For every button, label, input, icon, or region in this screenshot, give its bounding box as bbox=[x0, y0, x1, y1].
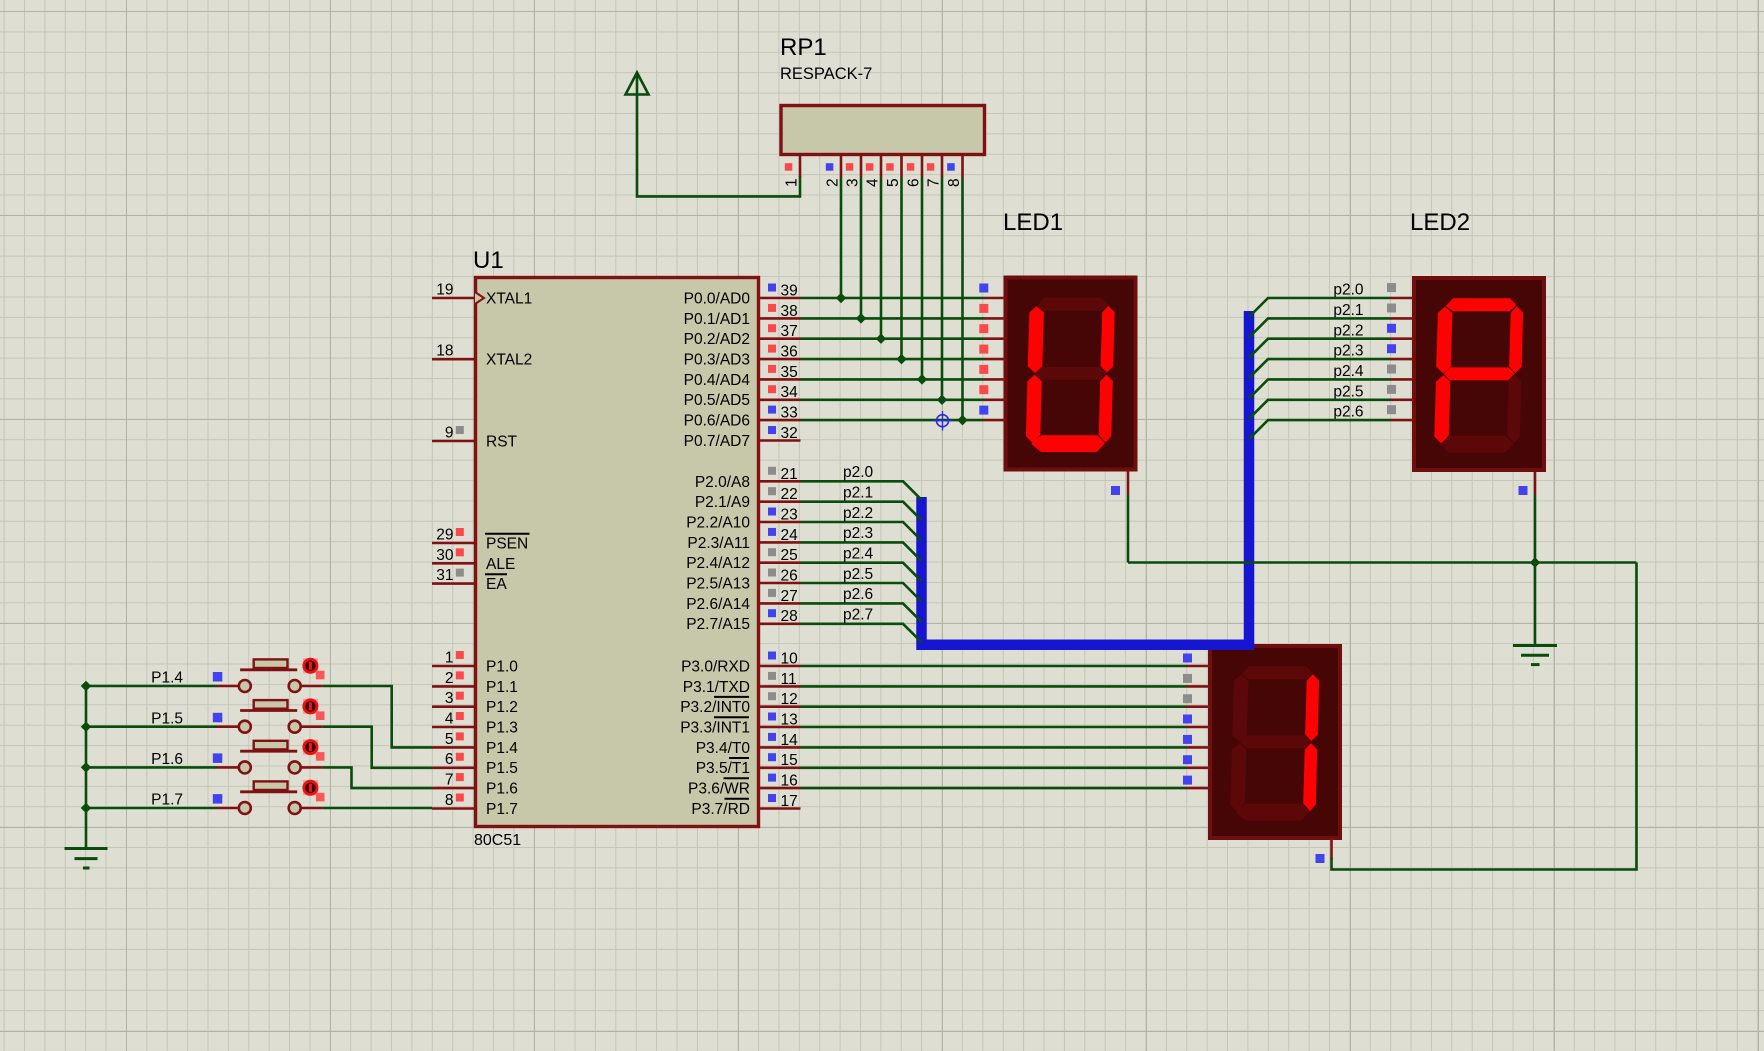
wire ground rail left bbox=[85, 686, 88, 849]
svg-text:13: 13 bbox=[781, 712, 798, 729]
U1 pin 26 P2.5/A13 bbox=[686, 568, 800, 593]
svg-text:P1.6: P1.6 bbox=[486, 781, 518, 798]
LED3 pin B bbox=[1183, 674, 1210, 687]
junction bbox=[856, 313, 866, 323]
svg-text:P1.1: P1.1 bbox=[486, 679, 518, 696]
wire P2.7 to bus bbox=[801, 624, 922, 642]
svg-text:p2.5: p2.5 bbox=[1333, 383, 1363, 400]
svg-text:XTAL1: XTAL1 bbox=[486, 291, 532, 308]
junction rail bbox=[81, 803, 91, 813]
svg-text:RESPACK-7: RESPACK-7 bbox=[780, 65, 872, 83]
U1 pin 33 P0.6/AD6 bbox=[684, 405, 801, 430]
junction bbox=[876, 333, 886, 343]
svg-text:P2.0/A8: P2.0/A8 bbox=[695, 474, 750, 491]
svg-text:P0.6/AD6: P0.6/AD6 bbox=[684, 413, 750, 430]
U1 pin 28 P2.7/A15 bbox=[686, 608, 800, 633]
svg-text:PSEN: PSEN bbox=[486, 536, 528, 553]
LED1 pin A bbox=[979, 284, 1006, 299]
LED2 segment D unlit bbox=[1440, 436, 1514, 453]
svg-text:32: 32 bbox=[781, 425, 798, 442]
U1 pin 35 P0.4/AD4 bbox=[684, 364, 801, 389]
svg-text:5: 5 bbox=[445, 731, 454, 748]
LED3 segment E unlit bbox=[1230, 743, 1246, 812]
wire RP1 pin 3 to P0.1 bbox=[860, 177, 863, 318]
svg-text:p2.3: p2.3 bbox=[843, 525, 873, 542]
svg-text:EA: EA bbox=[486, 576, 507, 593]
U1 pin 4 P1.3 bbox=[432, 711, 518, 737]
svg-text:17: 17 bbox=[781, 793, 798, 810]
svg-text:p2.2: p2.2 bbox=[843, 505, 873, 522]
svg-text:RST: RST bbox=[486, 434, 518, 451]
U1 pin 7 P1.6 bbox=[432, 772, 518, 798]
svg-text:P1.4: P1.4 bbox=[151, 670, 183, 687]
cursor crosshair bbox=[933, 411, 952, 431]
svg-text:p2.2: p2.2 bbox=[1333, 322, 1363, 339]
ground left bbox=[65, 849, 108, 869]
svg-text:P1.3: P1.3 bbox=[486, 720, 518, 737]
wire P0 rows to LED1 bbox=[801, 297, 985, 300]
U1 pin 16 P3.6/WR bbox=[688, 773, 801, 798]
svg-text:P3.3/INT1: P3.3/INT1 bbox=[680, 720, 750, 737]
junction bbox=[896, 354, 906, 364]
junction rail bbox=[81, 762, 91, 772]
wire LED2 common down bbox=[1534, 495, 1537, 563]
bus P2 bbox=[922, 311, 1250, 645]
wire RP1 pin 5 to P0.3 bbox=[900, 177, 903, 359]
LED3 segment G unlit bbox=[1240, 735, 1311, 748]
LED2 segment G lit bbox=[1444, 367, 1515, 380]
svg-text:P2.7/A15: P2.7/A15 bbox=[686, 616, 750, 633]
LED3 segment D unlit bbox=[1236, 804, 1310, 821]
RP1 pin 7 bbox=[926, 156, 943, 187]
LED3 pin C bbox=[1183, 694, 1210, 707]
junction bbox=[937, 395, 947, 405]
U1 pin 2 P1.1 bbox=[432, 670, 518, 696]
wire rail to button bbox=[86, 807, 217, 810]
LED3 pin E bbox=[1183, 735, 1210, 748]
svg-text:P1.5: P1.5 bbox=[486, 760, 518, 777]
wire RP1 pin 8 to P0.6 bbox=[961, 177, 964, 420]
junction bbox=[836, 293, 846, 303]
svg-text:8: 8 bbox=[946, 178, 963, 187]
wire P1.5 button to pin 6 bbox=[323, 727, 432, 768]
LED3 pin D bbox=[1183, 715, 1210, 728]
svg-text:23: 23 bbox=[781, 507, 798, 524]
svg-text:P1.6: P1.6 bbox=[151, 751, 183, 768]
svg-text:34: 34 bbox=[781, 384, 799, 401]
U1 pin 14 P3.4/T0 bbox=[696, 732, 801, 757]
wire rail to button bbox=[86, 685, 217, 688]
wire rail to button bbox=[86, 766, 217, 769]
net label P1.7 bbox=[151, 792, 222, 809]
svg-text:P3.6/WR: P3.6/WR bbox=[688, 781, 750, 798]
U1 pin 15 P3.5/T1 bbox=[696, 752, 801, 777]
svg-text:37: 37 bbox=[781, 323, 798, 340]
svg-text:P2.4/A12: P2.4/A12 bbox=[686, 555, 750, 572]
wire power to RP1 pin 1 bbox=[637, 94, 800, 196]
U1 pin 10 P3.0/RXD bbox=[681, 651, 800, 676]
svg-text:U1: U1 bbox=[473, 247, 504, 274]
svg-text:P2.1/A9: P2.1/A9 bbox=[695, 494, 750, 511]
U1 pin 19 XTAL1 bbox=[432, 282, 532, 308]
svg-text:31: 31 bbox=[436, 567, 453, 584]
LED3 common pin bbox=[1316, 838, 1332, 863]
svg-text:15: 15 bbox=[781, 752, 798, 769]
U1 pin 12 P3.2/INT0 bbox=[680, 691, 800, 716]
svg-text:2: 2 bbox=[445, 670, 454, 687]
U1 pin 24 P2.3/A11 bbox=[687, 527, 800, 552]
svg-text:P0.4/AD4: P0.4/AD4 bbox=[684, 372, 751, 389]
U1 pin 1 P1.0 bbox=[432, 650, 518, 676]
LED2 segment F lit bbox=[1436, 307, 1452, 374]
resistor pack RP1 bbox=[781, 106, 985, 155]
svg-text:7: 7 bbox=[926, 178, 943, 187]
svg-text:ALE: ALE bbox=[486, 556, 515, 573]
RP1 pin 5 bbox=[885, 156, 902, 187]
svg-text:25: 25 bbox=[781, 547, 798, 564]
svg-text:11: 11 bbox=[781, 671, 797, 688]
wire P2.6 to bus bbox=[801, 603, 922, 622]
svg-text:8: 8 bbox=[445, 792, 454, 809]
wire commons horizontal bbox=[1128, 561, 1637, 564]
LED3 pin G bbox=[1183, 776, 1210, 789]
U1 pin 6 P1.5 bbox=[432, 751, 518, 777]
wire bus to LED2 pin F bbox=[1249, 400, 1391, 419]
svg-text:P2.3/A11: P2.3/A11 bbox=[687, 535, 750, 552]
wire bus to LED2 pin A bbox=[1249, 298, 1391, 317]
U1 pin 25 P2.4/A12 bbox=[686, 547, 800, 572]
RP1 pin 3 bbox=[845, 156, 862, 187]
svg-text:RP1: RP1 bbox=[780, 34, 827, 61]
LED2 pin G bbox=[1387, 405, 1414, 420]
svg-text:80C51: 80C51 bbox=[474, 832, 521, 849]
U1 pin 36 P0.3/AD3 bbox=[684, 344, 801, 369]
wire P2.4 to bus bbox=[801, 563, 922, 582]
svg-text:7: 7 bbox=[445, 772, 454, 789]
LED1 segment A unlit bbox=[1037, 298, 1108, 311]
svg-text:5: 5 bbox=[885, 178, 902, 187]
svg-text:22: 22 bbox=[781, 486, 798, 503]
U1 pin 9 RST bbox=[432, 425, 518, 451]
net label P1.4 bbox=[151, 670, 222, 687]
svg-text:3: 3 bbox=[445, 690, 454, 707]
display LED2 body bbox=[1414, 278, 1544, 470]
svg-text:p2.5: p2.5 bbox=[843, 566, 873, 583]
svg-text:10: 10 bbox=[781, 651, 799, 668]
LED3 pin F bbox=[1183, 755, 1210, 768]
U1 pin 21 P2.0/A8 bbox=[695, 466, 801, 491]
RP1 pin 2 bbox=[825, 156, 842, 187]
wire RP1 pin 6 to P0.4 bbox=[921, 177, 924, 379]
svg-text:p2.1: p2.1 bbox=[1333, 302, 1363, 319]
LED3 segment F unlit bbox=[1232, 675, 1248, 742]
svg-text:4: 4 bbox=[445, 711, 454, 728]
LED1 pin D bbox=[979, 345, 1006, 360]
LED2 segment A lit bbox=[1446, 298, 1517, 311]
U1 pin 30 ALE bbox=[432, 547, 515, 573]
wire P1.4 button to pin 5 bbox=[323, 686, 432, 747]
svg-text:p2.4: p2.4 bbox=[1333, 363, 1364, 380]
svg-text:9: 9 bbox=[445, 425, 454, 442]
ground right bbox=[1513, 646, 1557, 665]
LED1 segment D lit bbox=[1031, 435, 1105, 452]
U1 pin 32 P0.7/AD7 bbox=[684, 425, 801, 450]
U1 pin 17 P3.7/RD bbox=[691, 793, 800, 818]
svg-text:1: 1 bbox=[445, 650, 454, 667]
junction rail bbox=[81, 681, 91, 691]
U1 pin 34 P0.5/AD5 bbox=[684, 384, 801, 409]
U1 pin 3 P1.2 bbox=[432, 690, 518, 716]
LED1 pin B bbox=[979, 304, 1006, 319]
U1 pin 8 P1.7 bbox=[432, 792, 518, 818]
svg-text:39: 39 bbox=[781, 283, 798, 300]
svg-text:6: 6 bbox=[445, 751, 454, 768]
svg-text:30: 30 bbox=[436, 547, 454, 564]
svg-text:p2.6: p2.6 bbox=[1333, 404, 1363, 421]
svg-text:p2.0: p2.0 bbox=[843, 464, 874, 481]
LED1 segment F lit bbox=[1028, 306, 1044, 373]
svg-text:35: 35 bbox=[781, 364, 798, 381]
svg-text:12: 12 bbox=[781, 691, 798, 708]
junction bbox=[917, 374, 927, 384]
wire P2.1 to bus bbox=[801, 502, 922, 521]
svg-text:XTAL2: XTAL2 bbox=[486, 352, 532, 369]
wire P2.2 to bus bbox=[801, 522, 922, 541]
LED2 pin B bbox=[1387, 304, 1414, 319]
wire bus to LED2 pin D bbox=[1249, 359, 1391, 378]
svg-text:p2.4: p2.4 bbox=[843, 546, 874, 563]
wire RP1 pin 7 to P0.5 bbox=[941, 177, 944, 400]
wire bus to LED2 pin G bbox=[1249, 420, 1391, 439]
LED1 segment G unlit bbox=[1035, 367, 1106, 380]
svg-text:p2.0: p2.0 bbox=[1333, 282, 1364, 299]
LED1 segment B lit bbox=[1101, 306, 1115, 373]
U1 pin 5 P1.4 bbox=[432, 731, 518, 757]
svg-text:21: 21 bbox=[781, 466, 798, 483]
svg-text:P0.2/AD2: P0.2/AD2 bbox=[684, 331, 750, 348]
LED2 pin A bbox=[1387, 283, 1414, 298]
LED2 pin E bbox=[1387, 365, 1414, 380]
LED1 pin E bbox=[979, 365, 1006, 380]
svg-text:27: 27 bbox=[781, 588, 798, 605]
svg-text:36: 36 bbox=[781, 344, 798, 361]
ic U1 body bbox=[476, 278, 759, 827]
svg-text:1: 1 bbox=[784, 178, 801, 187]
svg-text:P3.0/RXD: P3.0/RXD bbox=[681, 659, 750, 676]
svg-text:P0.1/AD1: P0.1/AD1 bbox=[684, 311, 750, 328]
svg-text:26: 26 bbox=[781, 568, 798, 585]
svg-text:38: 38 bbox=[781, 303, 798, 320]
wire ground stem right bbox=[1534, 563, 1537, 646]
svg-text:p2.1: p2.1 bbox=[843, 485, 873, 502]
svg-text:18: 18 bbox=[436, 343, 453, 360]
svg-text:P3.2/INT0: P3.2/INT0 bbox=[680, 699, 750, 716]
svg-text:P3.7/RD: P3.7/RD bbox=[691, 801, 750, 818]
wire P1.7 button to pin 8 bbox=[323, 807, 432, 810]
LED1 segment C lit bbox=[1099, 375, 1113, 443]
LED2 pin C bbox=[1387, 324, 1414, 339]
LED2 segment E lit bbox=[1434, 375, 1450, 444]
svg-text:P1.2: P1.2 bbox=[486, 699, 518, 716]
RP1 pin 6 bbox=[906, 156, 923, 187]
svg-text:P0.5/AD5: P0.5/AD5 bbox=[684, 392, 750, 409]
svg-text:P3.5/T1: P3.5/T1 bbox=[696, 760, 750, 777]
wire P2.0 to bus bbox=[801, 481, 922, 500]
junction rail bbox=[81, 721, 91, 731]
svg-text:P3.1/TXD: P3.1/TXD bbox=[683, 679, 750, 696]
svg-text:P2.5/A13: P2.5/A13 bbox=[686, 576, 750, 593]
LED3 pin A bbox=[1183, 654, 1210, 667]
svg-text:P1.7: P1.7 bbox=[486, 801, 518, 818]
wire right loop bbox=[1332, 563, 1637, 870]
U1 pin 23 P2.2/A10 bbox=[686, 507, 800, 532]
junction commons bbox=[1530, 557, 1540, 567]
wire P2.3 to bus bbox=[801, 542, 922, 561]
svg-text:2: 2 bbox=[825, 178, 842, 187]
wire LED1 common down bbox=[1127, 495, 1130, 563]
net label P1.6 bbox=[151, 751, 222, 768]
power symbol bbox=[626, 73, 649, 96]
svg-text:24: 24 bbox=[781, 527, 799, 544]
wire rail to button bbox=[86, 725, 217, 728]
wire P2.5 to bus bbox=[801, 583, 922, 602]
LED1 pin F bbox=[979, 385, 1006, 400]
U1 pin 38 P0.1/AD1 bbox=[684, 303, 801, 328]
svg-text:P2.6/A14: P2.6/A14 bbox=[686, 596, 750, 613]
U1 pin 37 P0.2/AD2 bbox=[684, 323, 801, 348]
LED2 common pin bbox=[1519, 472, 1536, 495]
svg-text:P2.2/A10: P2.2/A10 bbox=[686, 515, 750, 532]
U1 pin 13 P3.3/INT1 bbox=[680, 712, 800, 737]
svg-text:p2.3: p2.3 bbox=[1333, 343, 1363, 360]
display LED1 body bbox=[1006, 278, 1136, 470]
wire RP1 pin 2 to P0.0 bbox=[840, 177, 843, 298]
svg-text:3: 3 bbox=[845, 178, 862, 187]
svg-text:p2.6: p2.6 bbox=[843, 586, 873, 603]
svg-text:28: 28 bbox=[781, 608, 798, 625]
svg-text:P1.5: P1.5 bbox=[151, 710, 183, 727]
LED3 segment C lit bbox=[1303, 743, 1317, 811]
svg-text:P1.4: P1.4 bbox=[486, 740, 518, 757]
svg-text:16: 16 bbox=[781, 773, 798, 790]
svg-text:LED2: LED2 bbox=[1410, 209, 1470, 236]
svg-text:P1.0: P1.0 bbox=[486, 659, 518, 676]
svg-text:P0.7/AD7: P0.7/AD7 bbox=[684, 433, 750, 450]
U1 pin 39 P0.0/AD0 bbox=[684, 283, 801, 308]
LED1 common pin bbox=[1111, 470, 1128, 495]
push button P1.7 bbox=[217, 780, 325, 814]
LED3 segment A unlit bbox=[1242, 666, 1313, 679]
U1 pin 22 P2.1/A9 bbox=[695, 486, 801, 511]
wire bus to LED2 pin C bbox=[1249, 339, 1391, 358]
wire bus to LED2 pin E bbox=[1249, 379, 1391, 398]
svg-text:19: 19 bbox=[436, 282, 453, 299]
svg-text:29: 29 bbox=[436, 527, 453, 544]
junction bbox=[957, 415, 967, 425]
U1 pin 27 P2.6/A14 bbox=[686, 588, 800, 613]
svg-text:P1.7: P1.7 bbox=[151, 792, 183, 809]
LED2 pin D bbox=[1387, 344, 1414, 359]
svg-text:P3.4/T0: P3.4/T0 bbox=[696, 740, 751, 757]
svg-text:6: 6 bbox=[906, 178, 923, 187]
LED3 segment B lit bbox=[1305, 674, 1319, 741]
RP1 pin 4 bbox=[865, 156, 882, 187]
push button P1.6 bbox=[217, 740, 325, 774]
wire RP1 pin 4 to P0.2 bbox=[880, 177, 883, 339]
RP1 pin 1 bbox=[784, 156, 801, 187]
svg-text:P0.3/AD3: P0.3/AD3 bbox=[684, 352, 750, 369]
LED2 pin F bbox=[1387, 385, 1414, 400]
LED1 pin G bbox=[979, 406, 1006, 421]
wire P3 rows to LED3 bbox=[801, 665, 1187, 668]
U1 pin 11 P3.1/TXD bbox=[683, 671, 801, 696]
push button P1.5 bbox=[217, 699, 325, 733]
svg-text:33: 33 bbox=[781, 405, 798, 422]
display LED3 body bbox=[1210, 646, 1340, 838]
U1 pin 18 XTAL2 bbox=[432, 343, 532, 369]
LED1 pin C bbox=[979, 324, 1006, 339]
push button P1.4 bbox=[217, 658, 325, 692]
svg-text:4: 4 bbox=[865, 178, 882, 187]
LED1 segment E lit bbox=[1026, 375, 1042, 444]
U1 pin 31 EA bbox=[432, 567, 507, 593]
net label P1.5 bbox=[151, 710, 222, 727]
wire bus to LED2 pin B bbox=[1249, 318, 1391, 337]
svg-text:p2.7: p2.7 bbox=[843, 607, 873, 624]
LED2 segment B lit bbox=[1509, 306, 1523, 373]
LED2 segment C unlit bbox=[1507, 375, 1521, 443]
svg-text:14: 14 bbox=[781, 732, 799, 749]
wire P1.6 button to pin 7 bbox=[323, 767, 432, 788]
svg-text:P0.0/AD0: P0.0/AD0 bbox=[684, 291, 751, 308]
RP1 pin 8 bbox=[946, 156, 963, 187]
U1 pin 29 PSEN bbox=[432, 527, 530, 553]
svg-text:LED1: LED1 bbox=[1003, 209, 1063, 236]
